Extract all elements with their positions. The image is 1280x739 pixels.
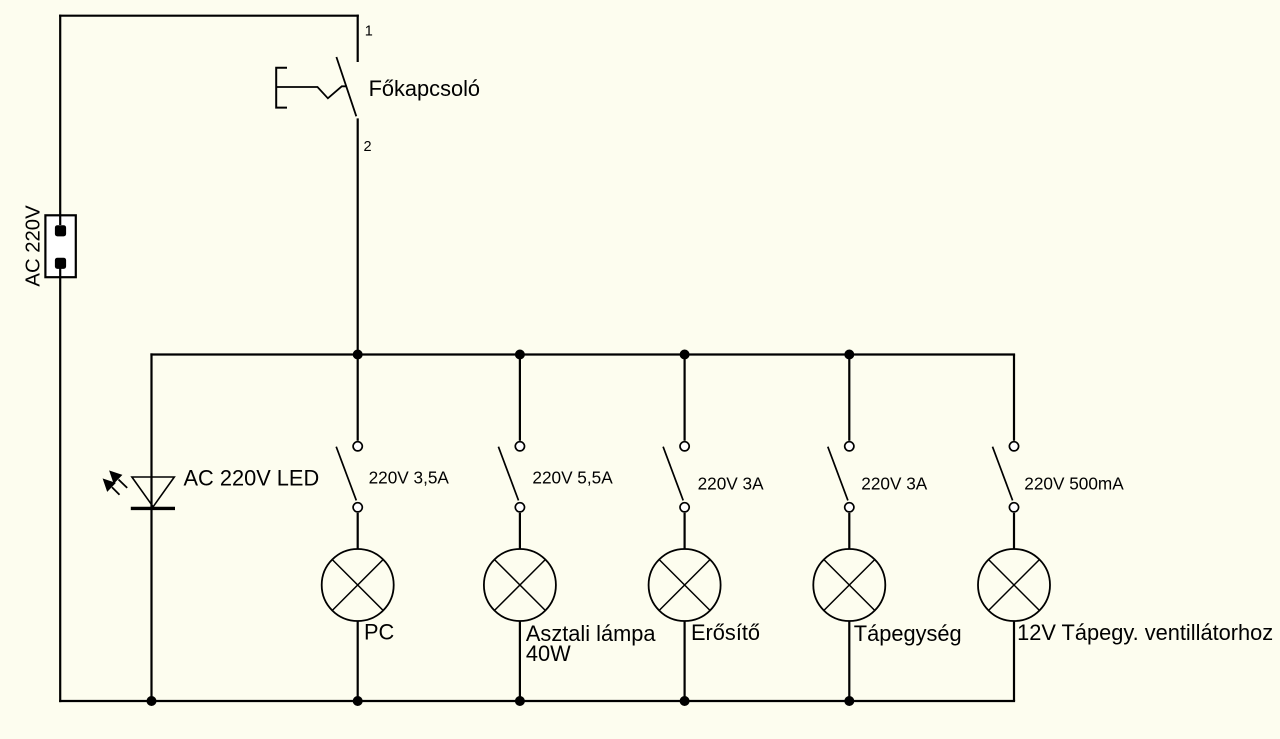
- switch top contact circle: [1009, 442, 1018, 451]
- switch bottom contact circle: [680, 503, 689, 512]
- switch blade: [993, 447, 1013, 501]
- switch blade: [336, 447, 356, 501]
- junction dots top bus: [353, 350, 855, 360]
- wire switch to lamp: [683, 513, 685, 549]
- wire bus to switch: [519, 355, 521, 441]
- switch top contact circle: [353, 442, 362, 451]
- junction dots bottom bus: [147, 696, 855, 706]
- switch bottom contact circle: [353, 503, 362, 512]
- wire switch to lamp: [357, 513, 359, 549]
- junction (357.7,354.5): [353, 350, 363, 360]
- lamp cross: [989, 560, 1040, 611]
- svg-text:220V 5,5A: 220V 5,5A: [532, 468, 613, 488]
- branch 5 switch S5: [993, 355, 1019, 550]
- junction (849.3,701): [844, 696, 854, 706]
- switch blade: [498, 447, 518, 501]
- svg-text:Főkapcsoló: Főkapcsoló: [369, 76, 480, 101]
- svg-text:2: 2: [364, 139, 372, 155]
- LED arrow 1: [110, 471, 127, 488]
- svg-text:220V 3,5A: 220V 3,5A: [369, 468, 450, 488]
- branch 2 switch S2: [498, 355, 524, 550]
- wire lamp to bottom bus: [683, 621, 685, 701]
- socket pin 2: [55, 258, 66, 269]
- switch bottom contact circle: [1009, 503, 1018, 512]
- svg-text:220V 500mA: 220V 500mA: [1024, 474, 1124, 494]
- svg-text:220V 3A: 220V 3A: [861, 474, 927, 494]
- blade: [336, 57, 356, 116]
- LED triangle: [132, 477, 174, 507]
- wire switch to lamp: [519, 513, 521, 549]
- actuator: [276, 86, 347, 98]
- switch blade: [828, 447, 848, 501]
- svg-text:12V Tápegy. ventillátorhoz: 12V Tápegy. ventillátorhoz: [1017, 620, 1273, 645]
- wire left vertical upper: [59, 16, 61, 231]
- svg-text:1: 1: [365, 23, 373, 39]
- svg-text:Erősítő: Erősítő: [691, 620, 760, 645]
- switch bottom contact circle: [845, 503, 854, 512]
- wire bus to switch: [1013, 355, 1015, 441]
- wire lamp to bottom bus: [848, 621, 850, 701]
- wire lamp to bottom bus: [1013, 621, 1015, 701]
- junction (684.6,701): [680, 696, 690, 706]
- wire bus to switch: [848, 355, 850, 441]
- wire bus to switch: [683, 355, 685, 441]
- branch 4 switch S4: [828, 355, 854, 550]
- LED cathode bar: [131, 507, 175, 510]
- branch 1 switch S1: [336, 355, 362, 550]
- switch top contact circle: [515, 442, 524, 451]
- wire switch to lamp: [848, 513, 850, 549]
- switch top contact circle: [680, 442, 689, 451]
- wire main switch pin1 drop: [357, 16, 359, 61]
- svg-text:PC: PC: [364, 619, 394, 644]
- svg-text:220V 3A: 220V 3A: [698, 474, 764, 494]
- wire main switch pin2 to bus: [357, 120, 359, 355]
- switch top contact circle: [845, 442, 854, 451]
- junction (519.9,354.5): [515, 350, 525, 360]
- junction (684.6,354.5): [680, 350, 690, 360]
- switch blade: [663, 447, 683, 501]
- lamp E4: [813, 549, 885, 701]
- AC 220V socket X1: [45, 215, 75, 277]
- wire bottom bus: [60, 700, 1014, 702]
- lamp cross: [824, 560, 875, 611]
- bracket: [276, 68, 287, 108]
- wire top bus: [152, 353, 1015, 355]
- lamp cross: [494, 560, 545, 611]
- junction (519.9,701): [515, 696, 525, 706]
- wire lamp to bottom bus: [519, 621, 521, 701]
- svg-text:Tápegység: Tápegység: [854, 621, 962, 646]
- lamp E3: [649, 549, 721, 701]
- junction (849.3,354.5): [844, 350, 854, 360]
- branch 3 switch S3: [663, 355, 689, 550]
- wire switch to lamp: [1013, 513, 1015, 549]
- switch bottom contact circle: [515, 503, 524, 512]
- junction (151.5,701): [147, 696, 157, 706]
- lamp cross: [332, 560, 383, 611]
- svg-text:AC 220V LED: AC 220V LED: [184, 465, 320, 490]
- lamp E1: [322, 549, 394, 701]
- wire bus to switch: [357, 355, 359, 441]
- lamp E2: [484, 549, 556, 701]
- lamp E5: [978, 549, 1050, 701]
- main switch S0 Főkapcsoló: [276, 57, 356, 116]
- wire left vertical lower: [59, 263, 61, 701]
- junction (357.7,701): [353, 696, 363, 706]
- socket pin 1: [55, 225, 66, 236]
- lamp cross: [659, 560, 710, 611]
- svg-text:AC 220V: AC 220V: [22, 205, 44, 287]
- wire LED branch lower: [150, 508, 152, 701]
- wire lamp to bottom bus: [357, 621, 359, 701]
- wire top horizontal: [60, 15, 358, 17]
- svg-text:40W: 40W: [526, 641, 571, 666]
- LED arrow 2: [103, 479, 119, 495]
- LED D1: [103, 471, 175, 508]
- wire LED branch upper: [150, 355, 152, 509]
